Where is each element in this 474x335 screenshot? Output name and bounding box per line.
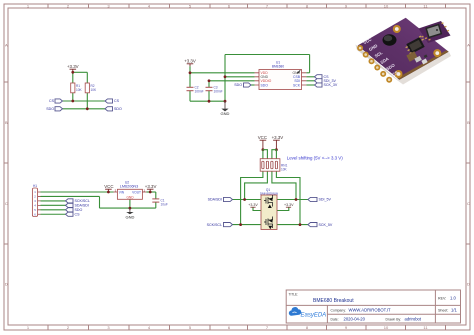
svg-text:3: 3 [107,325,110,330]
svg-text:Company:: Company: [331,308,347,312]
svg-text:10: 10 [384,325,389,330]
svg-text:LM6206N3: LM6206N3 [120,185,139,189]
svg-text:1/1: 1/1 [451,307,457,312]
svg-text:+3.3V: +3.3V [272,135,284,140]
svg-text:6: 6 [228,325,231,330]
svg-text:10K: 10K [76,88,83,92]
svg-text:SDO: SDO [234,83,242,87]
svg-text:SCK_5V: SCK_5V [319,223,333,227]
svg-text:SDO: SDO [75,208,83,212]
svg-text:DMN65D8LW: DMN65D8LW [260,191,278,195]
svg-text:C: C [5,201,8,206]
svg-text:SCK: SCK [293,83,301,87]
svg-text:CS: CS [49,99,55,103]
svg-text:Date:: Date: [331,317,339,321]
svg-text:SDO: SDO [46,107,54,111]
svg-text:C: C [467,201,470,206]
svg-text:adrirobot: adrirobot [405,317,422,322]
svg-text:10K: 10K [281,167,288,171]
svg-text:Level shifting (5V <--> 3.3 V): Level shifting (5V <--> 3.3 V) [287,156,343,161]
svg-text:1: 1 [27,325,30,330]
svg-text:VCC: VCC [104,184,113,189]
svg-text:D: D [5,282,8,287]
svg-text:10uF: 10uF [161,203,168,207]
svg-text:Sheet:: Sheet: [438,308,448,312]
svg-text:2: 2 [67,325,70,330]
svg-text:10K: 10K [91,88,98,92]
svg-text:2020-04-20: 2020-04-20 [344,317,366,322]
svg-text:TITLE:: TITLE: [289,293,299,297]
svg-text:7: 7 [266,325,269,330]
svg-text:10: 10 [384,4,389,9]
svg-text:SCK_3V: SCK_3V [324,83,338,87]
svg-text:SDA/SDI: SDA/SDI [208,198,222,202]
svg-text:BME680: BME680 [272,64,284,68]
svg-text:B: B [467,120,470,125]
svg-text:EasyEDA: EasyEDA [301,312,327,318]
svg-text:+3.3V: +3.3V [184,59,196,64]
svg-text:CS: CS [114,99,120,103]
svg-text:+3.3V: +3.3V [284,203,294,207]
svg-text:GND: GND [125,214,134,219]
svg-text:SDI_5V: SDI_5V [319,198,332,202]
svg-text:SDA/SDI: SDA/SDI [75,204,89,208]
svg-text:GND: GND [126,195,134,199]
svg-text:VCC: VCC [258,135,267,140]
svg-text:Drawn By:: Drawn By: [386,317,402,321]
svg-text:A: A [5,43,8,48]
svg-text:9: 9 [345,325,348,330]
svg-text:11: 11 [423,325,428,330]
svg-text:REV:: REV: [438,297,446,301]
svg-text:SDO: SDO [114,107,122,111]
svg-text:100nF: 100nF [214,89,223,93]
svg-text:8: 8 [306,325,309,330]
svg-text:A: A [467,43,470,48]
svg-text:4: 4 [148,325,151,330]
svg-text:100nF: 100nF [195,89,204,93]
svg-text:BME680 Breakout: BME680 Breakout [313,298,354,304]
svg-text:SCK/SCL: SCK/SCL [75,199,90,203]
svg-text:5: 5 [189,325,192,330]
svg-text:+3.3V: +3.3V [248,203,258,207]
svg-text:B: B [5,120,8,125]
svg-text:WWW.ADRIROBOT.IT: WWW.ADRIROBOT.IT [349,308,392,313]
svg-text:VOUT: VOUT [132,191,141,195]
svg-text:1.0: 1.0 [450,296,456,301]
svg-text:+3.3V: +3.3V [67,64,79,69]
svg-text:VIN: VIN [119,191,125,195]
svg-text:+3.3V: +3.3V [145,184,157,189]
svg-text:D: D [467,282,470,287]
svg-text:H1: H1 [33,184,37,188]
svg-text:SDO: SDO [261,83,269,87]
svg-text:CS: CS [75,212,81,216]
svg-text:GND: GND [221,111,230,116]
svg-text:SCK/SCL: SCK/SCL [207,223,222,227]
